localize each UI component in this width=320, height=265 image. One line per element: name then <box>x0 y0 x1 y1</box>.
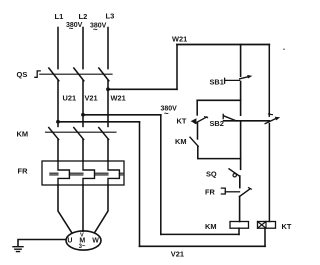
contact FR blade <box>240 189 250 197</box>
wire right rail lower <box>268 124 270 222</box>
wire branch rail to KT <box>196 100 198 115</box>
contact SB2-linked blade (right rail) <box>265 118 276 123</box>
wire main rail top (W21 to SB1) <box>240 45 242 77</box>
svg-text:W21: W21 <box>111 94 126 103</box>
wire U21 tap horizontal <box>58 121 140 123</box>
wire L2 <box>82 28 84 69</box>
svg-text:~: ~ <box>69 24 74 33</box>
svg-text:L1: L1 <box>55 12 65 21</box>
coil KM <box>230 222 249 229</box>
contact KT blade <box>195 117 207 123</box>
button SB1 tick <box>224 78 226 83</box>
FR actuator line <box>225 191 239 193</box>
wire V21 bottom rail <box>140 245 266 247</box>
svg-text:380V: 380V <box>161 106 178 113</box>
QS handle hook <box>35 71 40 77</box>
thermal relay FR box <box>42 161 124 185</box>
switch QS pole 2 blade <box>74 68 84 81</box>
FR heater element 2 <box>83 161 95 185</box>
svg-text:KM: KM <box>205 222 217 231</box>
wire KM pole2 to FR <box>82 140 84 162</box>
button SB1 blade <box>240 77 249 79</box>
svg-text:KM: KM <box>175 137 187 146</box>
svg-text:~: ~ <box>93 25 98 34</box>
wire V21 (QS to KM) <box>82 81 84 127</box>
speck artifact <box>283 48 285 50</box>
FR heater element 1 <box>58 161 69 185</box>
wire U21 (QS to KM) <box>57 81 59 127</box>
svg-text:QS: QS <box>17 70 28 79</box>
switch QS pole 3 blade <box>99 68 109 81</box>
switch SQ blade <box>229 169 239 176</box>
svg-text:KT: KT <box>177 117 187 126</box>
svg-text:L2: L2 <box>79 12 88 21</box>
wire main rail (SB1 to SB2) <box>240 82 242 116</box>
wire KM coil return horizontal <box>161 233 239 235</box>
FR heater element 3 <box>108 161 119 185</box>
FR blade tick <box>249 188 252 189</box>
contactor KM pole 1 blade <box>49 128 59 140</box>
node W21 tap <box>106 87 110 91</box>
svg-text:KM: KM <box>17 130 29 139</box>
wire parallel branch top <box>197 99 240 101</box>
wire FR to motor U <box>58 185 72 232</box>
wire V21 tap vertical down <box>160 115 162 235</box>
contactor KM pole 2 blade <box>74 128 84 140</box>
contactor KM pole 3 blade <box>99 128 109 140</box>
svg-text:L3: L3 <box>106 11 115 20</box>
wire W21 top rail <box>177 44 269 46</box>
wire main rail (SQ to FR) <box>239 176 241 188</box>
wire FR to motor W <box>95 185 108 232</box>
KT blade tick <box>205 117 208 118</box>
contact KM aux blade <box>190 137 198 146</box>
wire KM pole3 to FR <box>107 140 109 162</box>
wire branch rail bottom <box>198 146 241 158</box>
contact KT delay arrow <box>191 118 197 124</box>
wire KT coil bottom stub <box>264 228 266 246</box>
arrowhead on right blade <box>275 117 281 121</box>
wire L1 <box>57 28 59 69</box>
ground <box>13 247 23 252</box>
svg-text:SB2: SB2 <box>210 119 224 128</box>
wire SB2 output horizontal <box>224 120 270 122</box>
svg-text:3~: 3~ <box>79 244 86 250</box>
KT coil X pattern <box>258 222 267 229</box>
motor M <box>66 231 101 250</box>
wire FR to motor V <box>82 185 84 231</box>
svg-text:~: ~ <box>164 109 169 118</box>
node V21 tap <box>81 113 85 117</box>
wire KM coil bottom stub <box>238 228 240 234</box>
svg-text:SQ: SQ <box>206 170 217 179</box>
node U21 tap <box>56 120 60 124</box>
svg-text:W: W <box>92 237 99 244</box>
coil KT (time relay) <box>258 222 276 229</box>
wire V21 tap horizontal <box>83 114 161 116</box>
svg-text:KT: KT <box>282 222 292 231</box>
wire KM pole1 to FR <box>57 140 59 162</box>
svg-text:W21: W21 <box>172 35 187 44</box>
SQ roller <box>233 174 236 177</box>
svg-text:FR: FR <box>205 188 216 197</box>
wire W21 (QS to KM) <box>107 81 109 127</box>
button SB2 tick <box>222 114 224 118</box>
svg-text:U: U <box>67 237 72 244</box>
FR actuator bracket <box>221 188 225 194</box>
svg-text:V21: V21 <box>171 250 184 259</box>
wire L3 <box>107 28 109 69</box>
button SB1 actuator <box>225 79 240 81</box>
wire W21 tap vertical up <box>176 45 178 90</box>
button SB2 blade <box>224 116 237 121</box>
svg-text:U21: U21 <box>63 94 77 103</box>
arrowhead SB1 <box>247 75 252 79</box>
svg-text:SB1: SB1 <box>210 78 224 87</box>
FR element links <box>50 173 123 175</box>
right rail upper foot <box>269 113 273 116</box>
wire right rail upper <box>268 45 270 117</box>
wire main rail (FR to KM coil) <box>239 197 241 222</box>
switch QS pole 1 blade <box>49 68 59 81</box>
wire branch rail KT to KM <box>197 123 199 139</box>
wire main rail (SB2 to SQ) <box>240 121 242 170</box>
wire U21 tap vertical down <box>139 122 141 247</box>
wire W21 tap horizontal <box>108 88 177 90</box>
svg-text:V21: V21 <box>85 94 98 103</box>
KM linkage bar <box>46 131 117 133</box>
svg-text:FR: FR <box>18 167 29 176</box>
wire motor to ground <box>18 240 66 247</box>
QS linkage bar <box>40 73 112 75</box>
